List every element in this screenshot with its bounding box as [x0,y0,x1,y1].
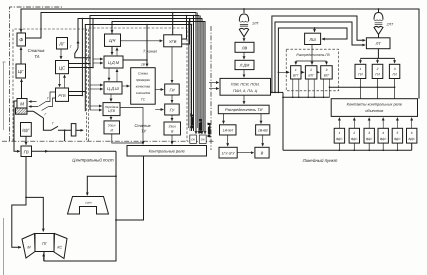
wire ЛГ to ЦС [60,49,62,59]
block 2 ВТГ [305,66,317,79]
svg-text:В: В [261,151,264,156]
wire ВДГ to ГВ [25,136,27,145]
svg-text:Ф: Ф [19,38,23,44]
bus node dots [191,24,193,26]
wire 2ЛТ to ЛТ [378,34,380,37]
wire 1В-6В to В [262,135,264,146]
wire L6 into Схема top [146,65,148,67]
svg-text:5: 5 [397,131,399,135]
wire collector riser down to line bus [282,92,284,150]
wire: bus vertical drop c [187,22,189,129]
wires ВДС boxes to bus [339,143,397,150]
svg-text:Ц.Д.Ш: Ц.Д.Ш [107,86,119,91]
wire 1ГУ-3ГУ to В [237,152,254,154]
wire hatched base output with switch Г and resistor [27,111,71,130]
block Ц.Д.Ш [104,82,122,94]
svg-text:2: 2 [309,68,312,72]
wires ГИ to Контакты box [360,79,394,99]
block 2ОК bus terminal [199,135,206,143]
svg-text:сигналов: сигналов [136,91,150,95]
wire ВТГ1 to ВТГ2 [301,71,304,73]
wire ЦДМ right to node [123,59,147,61]
svg-text:ВТГ: ВТГ [324,74,330,78]
svg-text:ЛВ: ЛВ [241,45,248,50]
svg-text:Распределитель ГВ: Распределитель ГВ [296,53,330,57]
svg-text:Узел: Узел [169,124,176,128]
dash-dot bottom border of stativ row [2,140,214,142]
block Узел В [164,122,181,135]
block Ц.Д.М [104,56,123,68]
block 3 ГИ [389,64,399,78]
block Ф [17,33,26,46]
svg-text:КС: КС [57,246,62,250]
dashed box Статив ТА [13,29,87,141]
wire ЦДМ-ЦДШ [108,68,110,81]
svg-text:3: 3 [326,68,328,72]
block ГУ [165,104,180,115]
wire L1 tap to 2ЛТ [378,9,380,12]
block 2 ГИ [372,64,383,78]
wire: top line L2 from Ф output [26,13,197,132]
svg-text:Ц.Д.М: Ц.Д.М [108,60,120,65]
wire into ЦЧ top [111,30,113,33]
panel ПГ [35,234,54,252]
wire ПЗИ to Распределитель ТИ [243,95,245,104]
block ГВ [21,146,32,157]
svg-text:4: 4 [382,131,384,135]
wire: bus vertical drop d [189,19,191,132]
wire: bus vertical drop a [191,25,193,132]
block ЦС [56,61,69,74]
block 4 ВДС [378,128,388,143]
wire ВТГ#1 left feed [278,71,289,73]
svg-text:ПАИ, А, ПА, Ц: ПАИ, А, ПА, Ц [233,89,258,93]
dashed box Статив ТУ (middle stativ) [88,28,187,141]
svg-text:1: 1 [339,131,341,135]
svg-text:Г: Г [70,45,73,49]
node on L1 at 2ЛТ [378,8,380,10]
svg-text:1: 1 [295,68,297,72]
wire ВТГ2 to ВТГ3 [317,71,320,73]
wire: feed drop x93 [92,19,94,68]
block 1 ВДС [334,128,344,143]
svg-text:1ЛТ: 1ЛТ [252,22,259,26]
svg-text:1ГУ-3ГУ: 1ГУ-3ГУ [222,152,236,156]
wire ЛШ to ВТГ distribution [296,45,327,65]
svg-text:1В: 1В [141,63,146,67]
svg-text:Контакты контрольных реле: Контакты контрольных реле [347,102,403,107]
wire Л.ДМ to ПЗИ [243,70,245,78]
block ЛВ [235,42,254,52]
svg-text:ВДС: ВДС [380,137,387,141]
console desk (сигн) [68,197,109,215]
svg-text:Центральный пост: Центральный пост [72,158,114,163]
svg-text:проверки: проверки [136,78,150,82]
svg-text:2ЛТ: 2ЛТ [386,23,394,27]
svg-text:ПЗИ, ПСИ, ПОИ,: ПЗИ, ПСИ, ПОИ, [231,82,260,86]
wire L1 tap to 1ЛТ [243,9,245,13]
wire: bus vertical drop f [200,16,202,132]
wire ЦДШ to ЦТВ [110,94,112,101]
wire: top line L3 [90,16,199,132]
block 1И-5И [220,125,237,135]
svg-text:объектов: объектов [365,108,383,113]
svg-text:сигн: сигн [85,201,92,205]
block 2 ВДС [349,128,359,143]
switch Г to М input 2 [29,98,56,111]
wire Контрольные реле to riser [116,156,144,220]
svg-text:Передача: Передача [105,105,119,109]
wire ГУ to Узел В [171,115,173,121]
wire console riser [44,151,116,261]
wire ЛТ to ГИ row [360,49,394,59]
wire М to ЦГ [21,79,23,98]
wire М side feed to ГВ left [14,101,20,151]
wire 1ЛТ to ЛВ [243,37,245,41]
wire ТИ to 1В-6В [260,114,262,124]
wire left feeds into ЦДМ [93,58,103,60]
block 3 ВДС [364,128,374,143]
svg-text:1И-5И: 1И-5И [223,129,234,133]
svg-text:ЛШ: ЛШ [308,37,316,42]
svg-text:ВДС: ВДС [351,137,358,141]
wires ЦС-РГВ verticals [59,74,61,87]
wire: top line L5 through ЦЧ [112,22,205,132]
svg-text:ЦГ: ЦГ [18,69,24,74]
svg-text:ЛГ: ЛГ [58,41,65,46]
wire ГИ to ГУ [171,95,173,103]
svg-text:3: 3 [394,67,396,71]
wire УГВ to ГИ [171,47,173,83]
svg-text:Т. канал: Т. канал [143,49,158,53]
panel М [22,234,35,259]
block РГВ [56,88,69,101]
block Контакты контрольных реле объектов [331,99,417,117]
svg-text:ЦЧ: ЦЧ [109,38,115,43]
svg-text:ГИ: ГИ [358,73,363,77]
svg-text:Л.ДМ: Л.ДМ [239,64,250,68]
svg-text:Контрольные реле: Контрольные реле [149,149,186,154]
wire ГВ output right to console riser [32,150,117,152]
wire ЦЧ right to УГВ [121,40,163,42]
svg-text:ВДС: ВДС [336,137,343,141]
wire УГВ top to L2 [172,13,174,35]
svg-text:ВДС: ВДС [366,137,373,141]
wire Узел В to Контрольные реле [171,135,173,144]
svg-text:ЦС: ЦС [59,66,66,71]
block ЛГ [57,38,68,50]
wire ПЗИ output to line point risers [271,91,284,93]
wire: feed drop x147 to Схема ТС [146,25,148,65]
wire junction to control row [64,129,66,131]
svg-text:2: 2 [376,67,379,71]
svg-text:ВДС: ВДС [394,137,401,141]
wire ЦТВ to Узел И [110,116,112,120]
wire loop R3 to ЛШ [278,28,347,92]
wire ЦДШ right to Схема [122,85,130,87]
wire: top line L4 [78,19,202,132]
wire ЦС outputs right [69,64,94,68]
wire: bus vertical drop e [197,13,199,129]
block Л.ДМ [235,60,254,69]
wire 1И-5И to 1ГУ-3ГУ [227,135,229,146]
svg-text:ТУ: ТУ [141,129,146,134]
svg-text:Линейный пункт: Линейный пункт [302,158,338,163]
block 1В-6В [256,125,270,135]
svg-text:ЛТ: ЛТ [375,41,382,46]
svg-text:Статив: Статив [28,48,46,53]
wires ВТГ outputs to collector [293,79,330,97]
svg-text:качества: качества [136,85,151,89]
block hatched base under М [16,108,28,114]
svg-text:Г: Г [52,122,55,126]
wire branch to ПГ panel top [26,197,43,231]
resistor element [71,124,76,136]
bus bottom arrowheads [195,131,197,134]
block ГИ [165,84,180,95]
svg-text:В конт. В: В конт. В [198,119,202,133]
wire: bus vertical drop g [203,22,205,132]
line transformer 1ЛТ [239,14,248,21]
block Узел И [104,121,120,134]
block 3 ВТГ [321,66,333,79]
svg-text:ВДС: ВДС [408,137,415,141]
block М [17,99,27,109]
svg-text:Узел: Узел [108,123,115,127]
svg-text:ТА: ТА [34,54,39,59]
block 1 ВТГ [291,66,301,79]
node on L1 at 1ЛТ [243,8,245,10]
wire loop R1 to ЛТ [272,16,365,92]
svg-text:В конт. У: В конт. У [190,113,194,128]
dash-dot border of Центральный пост (left, top, right) [10,7,211,150]
svg-text:Г: Г [45,113,48,117]
svg-text:ГИ: ГИ [375,73,380,77]
switch Г contact [77,41,79,45]
svg-text:6: 6 [411,131,413,135]
svg-text:1В-6В: 1В-6В [258,129,268,133]
line point bottom bus [283,143,412,150]
wires ВДС boxes to Контакты box [338,118,340,129]
block ЦЧ [105,34,121,46]
wire РГВ outputs right [69,92,86,96]
scan artifact left page edge marks [3,62,6,275]
svg-text:В конт. Л: В конт. Л [207,122,211,137]
svg-text:Схема: Схема [138,72,148,76]
collector wire [283,96,330,98]
block ВДГ [21,123,32,137]
wire ГВ down to panels [12,157,26,248]
dashed box Распределитель ГВ [286,49,338,91]
wire ЛВ to Л.ДМ [243,52,245,59]
svg-text:ОК: ОК [201,138,205,142]
wire ЦГ to Ф [20,47,22,64]
block Распределитель ТИ [218,105,269,114]
wire loop R2 to ЛТ [275,22,365,92]
switch Г to М input 1 [29,92,56,106]
svg-text:ГУ: ГУ [170,108,175,113]
wire ПГ bottom to bus [43,252,45,262]
wire ТИ to 1И-5И [223,114,225,124]
block 6 ВДС [407,128,417,143]
wire УГВ outputs right [182,16,190,45]
svg-text:2: 2 [352,131,355,135]
svg-text:ВТГ: ВТГ [293,74,299,78]
block ЛШ [305,33,321,44]
svg-text:ВТГ: ВТГ [308,74,314,78]
wire feeds into ПЗИ left [209,82,219,84]
block ПЗИ ПСИ ПОИ ПАИ [220,78,271,95]
block В [255,147,269,158]
wire: bus vertical drop b [193,16,195,132]
block Передача ЦТВ [103,103,120,116]
block Схема проверки качества сигналов ТС [131,68,156,105]
svg-text:ТС: ТС [141,98,146,102]
wire ЦЧ to ЦДМ [111,46,113,54]
svg-text:ГВ: ГВ [24,149,29,154]
block 1ГУ-3ГУ [219,147,237,158]
svg-text:ОК: ОК [191,138,195,142]
svg-text:1: 1 [360,67,362,71]
svg-text:РГВ: РГВ [58,93,66,98]
svg-text:УГВ: УГВ [169,39,177,44]
line transformer 2ЛТ [374,13,383,20]
wire ЛШ top feed [314,27,316,29]
wire Ф top arrow [20,29,22,32]
wire gap vertical x82.4 [81,19,83,96]
svg-text:ГИ: ГИ [392,73,397,77]
wire Узел И to Контрольные реле [112,108,143,145]
block Контрольные реле [127,146,207,157]
block УГВ [164,35,182,47]
wire cross link from ВТГ collector pair [330,86,395,88]
svg-text:ВДГ: ВДГ [22,129,30,133]
wire: top line L6 [85,25,191,112]
svg-text:ГИ: ГИ [169,88,174,93]
svg-text:ЦТВ: ЦТВ [108,109,116,113]
block 1ОК bus terminal [190,135,197,143]
block ЦГ [16,64,26,78]
wire Схема to ГУ [155,109,163,111]
wire branch to console top [87,176,116,195]
wire left feeds into ЦТВ [90,105,102,107]
svg-text:Распределитель ТИ: Распределитель ТИ [225,107,263,112]
wire left feeds into ЦДШ [90,84,103,86]
wire Схема to ГИ [155,89,163,91]
block 5 ВДС [392,128,402,143]
svg-text:М: М [20,101,24,106]
svg-text:Статив: Статив [134,123,150,128]
panel КС [54,234,67,259]
wire after resistor [76,129,83,131]
block ЛТ [366,38,390,49]
wire: top line L1 (line channel) [21,9,419,99]
svg-text:3: 3 [368,131,370,135]
block 1 ГИ [355,64,366,78]
svg-text:Г: Г [47,97,50,101]
